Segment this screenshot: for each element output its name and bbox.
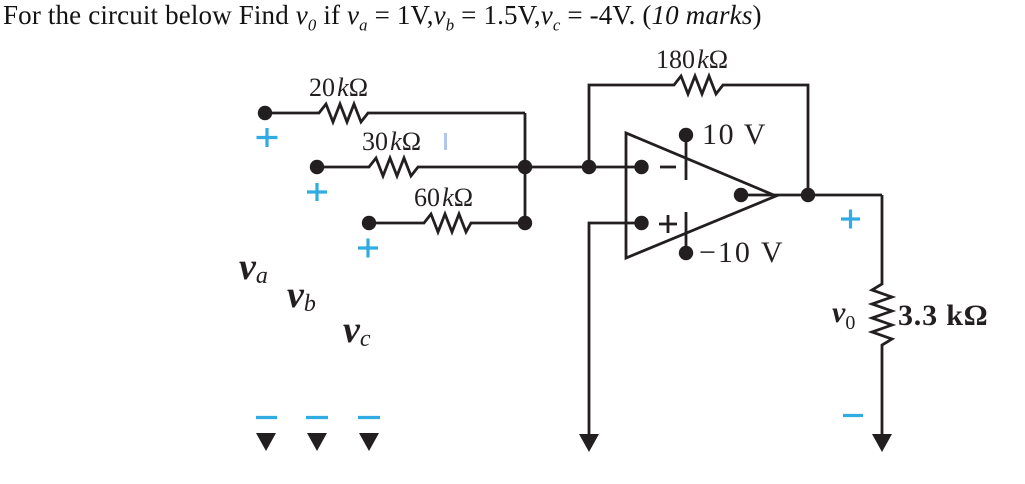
op-amp negative supply pin xyxy=(685,212,688,253)
wire non-inverting input xyxy=(589,223,641,436)
pin dot inverting input xyxy=(634,160,648,174)
wire vertical bus x=525 xyxy=(524,113,527,223)
pin dot non-inverting input xyxy=(634,216,648,230)
svg-text:10 V: 10 V xyxy=(702,118,767,151)
svg-text:20 kΩ: 20 kΩ xyxy=(309,73,368,102)
plus polarity source b xyxy=(307,183,327,201)
ground arrowhead load branch xyxy=(872,434,892,452)
minus polarity source c xyxy=(358,416,380,419)
ground arrow source c xyxy=(359,433,379,451)
op-amp minus sign xyxy=(660,166,676,169)
op-amp U1 triangle xyxy=(626,133,776,258)
junction bus bottom xyxy=(518,216,532,230)
op-amp positive supply pin xyxy=(685,135,688,180)
node dot va terminal xyxy=(258,106,272,120)
wire feedback with resistor R4 zigzag xyxy=(589,76,808,195)
pin dot +10V supply xyxy=(679,128,693,142)
svg-text:v0: v0 xyxy=(832,296,855,334)
wire va input with resistor R1 zigzag xyxy=(265,104,525,122)
node dot vb terminal xyxy=(310,160,324,174)
svg-text:−10 V: −10 V xyxy=(699,236,785,269)
node dot vc terminal xyxy=(362,216,376,230)
svg-text:vb: vb xyxy=(287,274,316,317)
title text xyxy=(3,2,762,34)
minus polarity source a xyxy=(256,416,277,419)
ground arrow source b xyxy=(307,433,327,451)
plus polarity output xyxy=(841,210,860,229)
minus polarity source b xyxy=(306,416,328,419)
svg-text:va: va xyxy=(239,246,268,289)
stray blue artifact near 30k label xyxy=(444,133,447,150)
wire vb input with resistor R2 zigzag xyxy=(317,158,641,176)
wire vc input with resistor R3 zigzag xyxy=(369,214,525,232)
plus polarity source a xyxy=(257,128,278,147)
junction bus/inverting line xyxy=(518,160,532,174)
minus polarity output xyxy=(843,414,863,417)
svg-text:vc: vc xyxy=(343,309,371,352)
pin dot -10V supply xyxy=(679,246,693,260)
junction output/feedback xyxy=(801,188,815,202)
junction feedback node xyxy=(582,160,596,174)
node dot op-amp output xyxy=(734,188,748,202)
svg-text:60 kΩ: 60 kΩ xyxy=(414,183,473,212)
plus polarity source c xyxy=(358,239,378,258)
svg-text:30 kΩ: 30 kΩ xyxy=(362,127,421,156)
svg-text:180 kΩ: 180 kΩ xyxy=(656,45,728,74)
ground arrowhead non-inverting branch xyxy=(579,434,599,452)
ground arrow source a xyxy=(256,433,276,451)
wire output xyxy=(741,194,882,197)
wire load branch with resistor R5 vertical zigzag xyxy=(872,195,892,436)
svg-text:3.3 kΩ: 3.3 kΩ xyxy=(898,299,989,332)
op-amp plus sign xyxy=(659,215,677,233)
